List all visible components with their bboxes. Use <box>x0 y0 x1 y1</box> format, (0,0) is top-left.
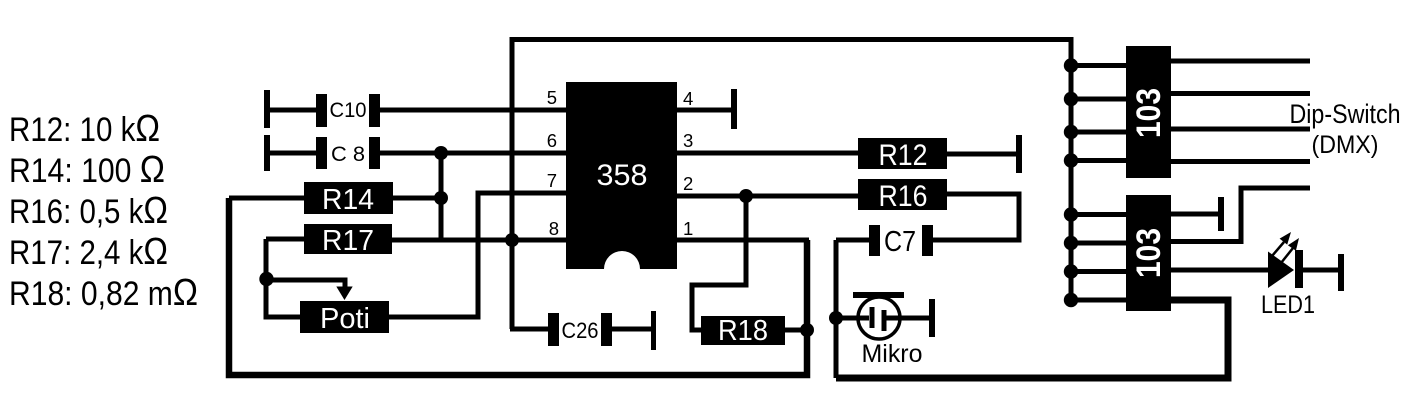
wire R18 right <box>785 328 807 333</box>
wire wiper branch <box>266 280 345 288</box>
wire C7 left rail down <box>834 240 839 378</box>
svg-text:R16: R16 <box>879 180 928 213</box>
wire pin 2 to R16 <box>677 194 858 199</box>
wire R14 to node <box>393 196 441 201</box>
wire pin 3 to R12 <box>677 151 858 156</box>
wire RN1 output 2 to dip switch <box>1171 91 1310 96</box>
svg-text:R12: R12 <box>879 139 928 172</box>
wire LED1 cathode to terminal <box>1303 268 1338 273</box>
wire pin 1 <box>677 238 809 243</box>
wire bus stub to RN2 pin 4 <box>1071 298 1126 303</box>
resistor R12 <box>858 138 947 172</box>
svg-text:2: 2 <box>683 173 693 194</box>
junction dot bus pin 2 of RN2 <box>1064 236 1078 250</box>
junction dot bus pin 3 of RN1 <box>1064 125 1078 139</box>
svg-text:R17: R17 <box>322 225 374 257</box>
terminal 103b out1 <box>1218 197 1224 231</box>
junction dot bus pin 1 of RN1 <box>1064 58 1078 72</box>
wire C8 to pin 6 <box>380 151 567 156</box>
resistor R18 <box>701 315 785 347</box>
capacitor C7 <box>836 225 933 258</box>
wire R17 down to Poti left <box>266 239 300 317</box>
resistor R17 <box>304 224 392 257</box>
junction dot bus pin 4 of RN1 <box>1064 153 1078 167</box>
svg-text:8: 8 <box>549 218 559 239</box>
svg-text:7: 7 <box>547 170 557 191</box>
wire RN1 output 1 to dip switch <box>1171 59 1310 64</box>
svg-text:R12: 10 kΩ: R12: 10 kΩ <box>9 108 160 150</box>
microphone Mikro <box>836 292 935 368</box>
resistor network 103 top <box>1126 46 1171 178</box>
svg-text:R14: 100 Ω: R14: 100 Ω <box>9 149 165 191</box>
wire 103b out1 to terminal <box>1171 212 1218 217</box>
node dot wiper tap <box>259 272 273 286</box>
wire 103b out2 up right <box>1171 188 1310 242</box>
wire R12 right <box>947 152 1016 157</box>
junction dot bus pin 1 of RN2 <box>1064 207 1078 221</box>
svg-text:103: 103 <box>1130 228 1168 278</box>
wire left rail to R14 <box>229 196 304 201</box>
svg-text:5: 5 <box>547 87 557 108</box>
terminal LED1 cathode <box>1338 254 1344 291</box>
resistor R16 <box>858 179 947 213</box>
svg-text:358: 358 <box>597 159 648 192</box>
svg-text:R17: 2,4 kΩ: R17: 2,4 kΩ <box>9 231 168 273</box>
wire R16 right down to C7 <box>933 194 1019 240</box>
wire pin 4 <box>677 108 731 113</box>
node dot pin 2 <box>739 189 753 203</box>
wire R17 right to pin 8 <box>392 238 567 243</box>
wire bus stub to RN2 pin 1 <box>1071 212 1126 217</box>
svg-text:LED1: LED1 <box>1261 291 1315 319</box>
wire bus stub to RN1 pin 3 <box>1071 130 1126 135</box>
svg-text:C 8: C 8 <box>331 143 365 166</box>
svg-text:4: 4 <box>683 88 693 109</box>
wire bus stub to RN2 pin 3 <box>1071 269 1126 274</box>
svg-text:R14: R14 <box>322 184 374 216</box>
wire C10 to pin 5 <box>380 108 567 113</box>
svg-text:3: 3 <box>683 130 693 151</box>
node dot R18 right <box>800 323 814 337</box>
LED LED1 triangle anode <box>1268 252 1294 289</box>
wire RN1 output 3 to dip switch <box>1171 127 1310 132</box>
wire pin2 node down to R18 left <box>692 196 746 330</box>
resistor network 103 bottom <box>1126 195 1171 311</box>
junction dot bus pin 4 of RN2 <box>1064 293 1078 307</box>
svg-text:R16: 0,5 kΩ: R16: 0,5 kΩ <box>9 190 168 232</box>
junction dot bus pin 2 of RN1 <box>1064 92 1078 106</box>
terminal R12 right <box>1016 135 1022 173</box>
capacitor C10 <box>264 90 380 128</box>
capacitor C8 <box>264 135 380 171</box>
svg-text:R18: R18 <box>718 315 768 347</box>
svg-text:C10: C10 <box>330 99 367 122</box>
node dot pin8 vertical <box>505 233 519 247</box>
node dot mikro <box>829 311 843 325</box>
wire RN1 output 4 to dip switch <box>1171 159 1310 164</box>
wire top net pin8 vertical, top run, right bus <box>512 40 1071 330</box>
svg-text:R18: 0,82 mΩ: R18: 0,82 mΩ <box>9 272 198 314</box>
LED LED1 cathode bar <box>1295 250 1303 288</box>
svg-text:Dip-Switch: Dip-Switch <box>1290 99 1401 129</box>
left ground loop rail <box>229 198 807 375</box>
bottom rail right net <box>836 300 1228 378</box>
wire bus stub to RN1 pin 4 <box>1071 158 1126 163</box>
LED light arrow 1 <box>1272 232 1291 256</box>
terminal pin 4 <box>731 89 737 129</box>
svg-text:(DMX): (DMX) <box>1312 131 1379 159</box>
svg-text:Mikro: Mikro <box>862 340 923 368</box>
wire node vertical C8 line to pin8 line <box>439 153 444 240</box>
capacitor C26 <box>510 311 656 350</box>
op-amp U1 358 body <box>566 82 677 269</box>
LED light arrow 2 <box>1281 238 1299 263</box>
wire Poti right up to pin 7 <box>389 193 567 317</box>
junction dot bus pin 3 of RN2 <box>1064 264 1078 278</box>
potentiometer Poti <box>300 301 389 335</box>
svg-text:C26: C26 <box>562 318 599 343</box>
wire R17 left <box>266 237 304 242</box>
svg-text:C7: C7 <box>884 226 916 258</box>
wiper arrowhead into Poti <box>336 287 352 301</box>
wire 103b out3 to LED <box>1171 268 1270 273</box>
svg-text:6: 6 <box>547 130 557 151</box>
svg-text:Poti: Poti <box>320 303 370 335</box>
svg-text:1: 1 <box>683 218 693 239</box>
svg-text:103: 103 <box>1130 88 1168 138</box>
node dot C8 line <box>434 146 448 160</box>
resistor R14 <box>304 182 393 216</box>
wire bus stub to RN1 pin 2 <box>1071 97 1126 102</box>
wire bus stub to RN2 pin 2 <box>1071 241 1126 246</box>
node dot R14 line <box>434 191 448 205</box>
wire bus stub to RN1 pin 1 <box>1071 63 1126 68</box>
